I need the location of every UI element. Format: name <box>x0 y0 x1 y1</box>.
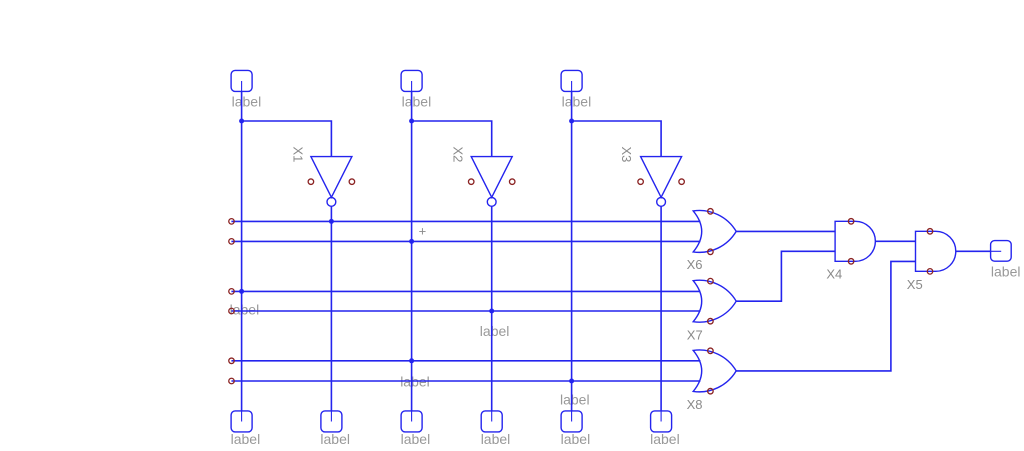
svg-text:X8: X8 <box>687 397 703 412</box>
pin stub bottom box 1 <box>241 411 243 422</box>
pin stub output box right <box>991 250 1002 252</box>
open pin X1 right <box>349 179 355 185</box>
output box bottom 1 <box>231 411 252 432</box>
open pin X7 top <box>708 278 714 284</box>
svg-text:label: label <box>480 323 510 339</box>
input box 1 <box>231 70 252 91</box>
svg-text:X2: X2 <box>450 147 465 163</box>
pin stub bottom box 6 <box>660 411 662 422</box>
junction X1 out / rail 1 <box>329 219 334 224</box>
junction input3 branch <box>569 119 574 124</box>
open pin X4 bottom <box>848 259 854 265</box>
open pin X3 left <box>638 179 644 185</box>
wire column A (input 1 vertical) <box>241 91 243 411</box>
wire branch to X3 input <box>572 121 662 157</box>
inverter X1 <box>311 157 352 198</box>
open pin rail 4 <box>229 308 235 314</box>
svg-text:label: label <box>562 93 592 109</box>
open pin X6 bottom <box>708 249 714 255</box>
output box bottom 6 <box>651 411 672 432</box>
inverter X3 <box>641 157 682 198</box>
wire X5 output to output box <box>956 250 991 252</box>
pin stub input box 3 <box>571 81 573 91</box>
svg-text:label: label <box>991 263 1021 279</box>
and gate X5 <box>916 231 956 271</box>
svg-text:label: label <box>232 93 262 109</box>
wire rail 5 (X8 input a) <box>231 360 700 362</box>
junction col B / rail 5 <box>409 358 414 363</box>
open pin rail 2 <box>229 239 235 245</box>
wire branch to X2 input <box>412 121 492 157</box>
wire rail 1 (X6 input a) <box>231 220 700 222</box>
junction col B / rail 2 <box>409 239 414 244</box>
inverter X2 <box>471 157 512 198</box>
pin stub input box 1 <box>241 81 243 91</box>
open pin rail 1 <box>229 219 235 225</box>
open pin rail 3 <box>229 289 235 295</box>
wire column B (input 2 vertical) <box>411 91 413 411</box>
junction X2 out / rail 4 <box>489 309 494 314</box>
open pin X2 left <box>468 179 474 185</box>
svg-text:X4: X4 <box>826 267 842 282</box>
pin stub input box 2 <box>411 81 413 91</box>
svg-text:+: + <box>419 224 427 239</box>
output box bottom 5 <box>561 411 582 432</box>
open pin rail 6 <box>229 378 235 384</box>
wire X6 output to X4 <box>736 230 835 232</box>
or gate X6 <box>693 210 736 252</box>
wire X2 output column <box>491 206 493 411</box>
junction col A / rail 3 <box>239 289 244 294</box>
pin stub bottom box 3 <box>411 411 413 422</box>
wire rail 4 (X7 input b) <box>231 310 700 312</box>
open pin X5 top <box>927 229 933 235</box>
svg-text:X6: X6 <box>687 257 703 272</box>
pin stub bottom box 4 <box>491 411 493 422</box>
svg-text:label: label <box>560 392 590 408</box>
or gate X7 <box>693 280 736 322</box>
wire column C (input 3 vertical) <box>571 91 573 411</box>
wire X4 output to X5 <box>876 240 916 242</box>
output box bottom 3 <box>401 411 422 432</box>
svg-text:label: label <box>561 431 591 447</box>
junction input2 branch <box>409 119 414 124</box>
svg-text:label: label <box>650 431 680 447</box>
junction col C / rail 6 <box>569 379 574 384</box>
svg-text:X7: X7 <box>687 327 703 342</box>
junction input1 branch <box>239 119 244 124</box>
wire X7 output to X4 <box>736 251 835 301</box>
open pin X1 left <box>308 179 314 185</box>
input box 2 <box>401 70 422 91</box>
open pin rail 5 <box>229 358 235 364</box>
open pin X8 bottom <box>708 388 714 394</box>
pin stub bottom box 2 <box>330 411 332 422</box>
open pin X5 bottom <box>927 269 933 275</box>
wire rail 6 (X8 input b) <box>231 380 700 382</box>
and gate X4 <box>835 221 875 261</box>
svg-text:label: label <box>231 431 261 447</box>
wire branch to X1 input <box>242 121 332 157</box>
svg-text:label: label <box>401 431 431 447</box>
output box right <box>991 241 1012 262</box>
open pin X8 top <box>708 348 714 354</box>
wire rail 2 (X6 input b) <box>231 240 700 242</box>
open pin X7 bottom <box>708 318 714 324</box>
open pin X2 right <box>509 179 515 185</box>
or gate X8 <box>693 350 736 392</box>
output box bottom 2 <box>321 411 342 432</box>
svg-text:X3: X3 <box>619 147 634 163</box>
open pin X3 right <box>679 179 685 185</box>
svg-text:label: label <box>402 93 432 109</box>
pin stub bottom box 5 <box>571 411 573 422</box>
open pin X6 top <box>708 209 714 215</box>
wire X1 output column <box>330 206 332 411</box>
svg-text:label: label <box>320 431 350 447</box>
output box bottom 4 <box>481 411 502 432</box>
wire X3 output column <box>660 206 662 411</box>
input box 3 <box>561 70 582 91</box>
open pin X4 top <box>848 219 854 225</box>
svg-text:label: label <box>481 431 511 447</box>
svg-text:X5: X5 <box>907 277 923 292</box>
wire X8 output to X5 <box>736 261 915 371</box>
wire rail 3 (X7 input a) <box>231 290 700 292</box>
svg-text:X1: X1 <box>291 147 306 163</box>
